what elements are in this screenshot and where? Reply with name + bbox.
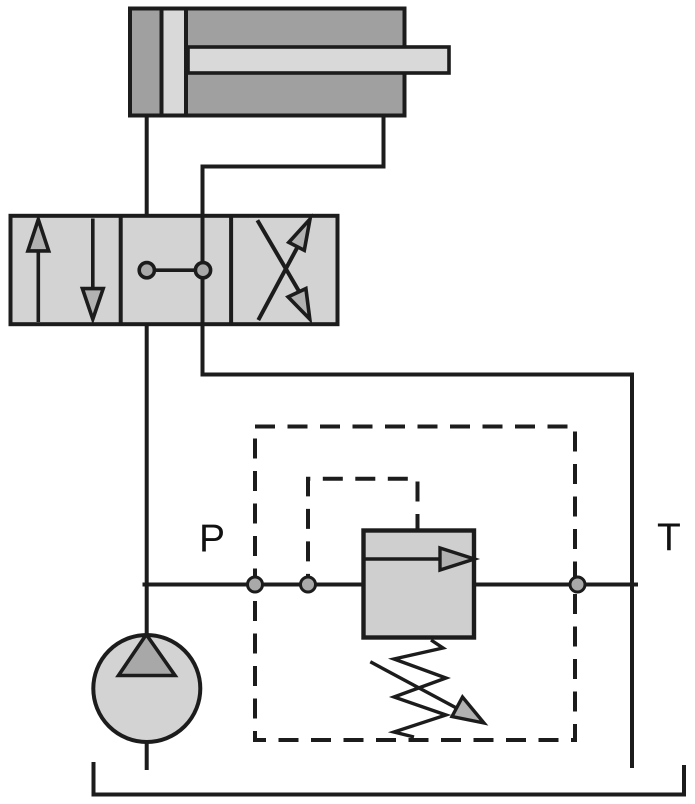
pressure line P from pump riser to tank line (143, 583, 639, 587)
relief valve RV1 body (364, 531, 475, 638)
directional valve V1 body (11, 216, 338, 324)
outer dashed pilot enclosure (255, 427, 575, 741)
wire A-line through valve centre to relief manifold (201, 165, 205, 375)
valve left position: up arrow (28, 220, 49, 323)
wire from cylinder cap-end port down to valve and pump riser (145, 114, 149, 218)
piston (162, 9, 187, 116)
valve divider 1 (119, 216, 123, 324)
cylinder C1 barrel (130, 9, 405, 116)
relief valve spring (394, 640, 446, 737)
relief valve flow arrow (364, 548, 475, 570)
junction node dot 2 (301, 577, 316, 592)
valve left position: down arrow (82, 219, 103, 320)
pump PU1 (93, 635, 200, 771)
tank reservoir outline (94, 762, 685, 795)
piston rod (188, 47, 449, 73)
wire from cylinder rod-end port (203, 114, 384, 167)
valve centre position: plugged port circles with link (139, 263, 210, 278)
inner dashed pilot line (308, 479, 418, 584)
svg-text:T: T (657, 517, 681, 560)
wire (145, 322, 149, 636)
svg-text:P: P (199, 518, 225, 561)
wire to tank line T (201, 375, 633, 769)
adjustment arrow through spring (370, 662, 484, 723)
valve divider 2 (229, 216, 233, 324)
junction node dot 1 (248, 577, 263, 592)
junction node dot 3 (570, 577, 585, 592)
valve right position: crossed arrows (257, 219, 310, 320)
